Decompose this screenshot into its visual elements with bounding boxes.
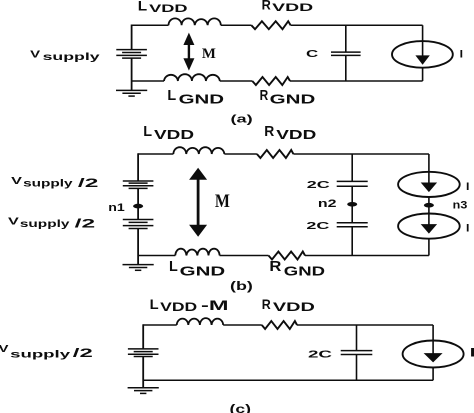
capacitor 2C lower (b)	[337, 222, 368, 224]
inductor L_VDD (a)	[169, 18, 221, 25]
svg-text:R: R	[269, 258, 281, 275]
capacitor 2C upper (b)	[351, 154, 353, 181]
svg-text:n1: n1	[108, 202, 125, 214]
svg-text:GND: GND	[284, 265, 325, 279]
resistor R_VDD (c)	[262, 321, 297, 329]
node: figure (c) bottom rail	[143, 379, 433, 381]
svg-text:(a): (a)	[231, 113, 254, 125]
svg-text:VDD: VDD	[149, 3, 187, 15]
node: figure (b) bottom rail	[138, 255, 175, 257]
svg-text:(b): (b)	[230, 281, 253, 293]
svg-text:VDD: VDD	[154, 127, 194, 142]
node n1 dot	[133, 204, 143, 209]
node: figure (a) top rail	[132, 24, 169, 26]
node n3 dot	[424, 203, 434, 208]
svg-text:V: V	[8, 216, 19, 227]
svg-text:supply: supply	[10, 350, 70, 361]
resistor R_VDD (a)	[251, 21, 290, 29]
svg-text:R: R	[264, 123, 274, 140]
capacitor 2C (c)	[356, 325, 358, 351]
inductor L_GND (b)	[175, 249, 219, 256]
node: figure (b) top rail	[138, 153, 173, 155]
svg-text:2C: 2C	[307, 180, 330, 191]
wire top rail to battery 1 (b)	[137, 153, 139, 181]
svg-text:/2: /2	[75, 217, 96, 231]
svg-text:V: V	[30, 49, 40, 60]
svg-text:/2: /2	[73, 346, 94, 360]
svg-text:V: V	[0, 343, 9, 355]
svg-text:VDD: VDD	[160, 300, 198, 314]
svg-text:/2: /2	[78, 176, 99, 190]
svg-text:M: M	[215, 191, 230, 212]
battery V_supply/2 (c)	[128, 348, 159, 350]
resistor R_VDD (b)	[257, 150, 294, 158]
svg-text:supply: supply	[20, 219, 70, 230]
svg-text:I: I	[460, 49, 463, 61]
svg-text:-M: -M	[201, 298, 229, 313]
svg-text:L: L	[138, 0, 148, 13]
svg-text:L: L	[143, 123, 152, 140]
current source I lower (b)	[398, 214, 460, 239]
mutual inductance arrow M (b)	[197, 176, 200, 228]
current source I upper (b)	[428, 154, 430, 173]
node: figure (c) top rail	[143, 324, 177, 326]
svg-text:2C: 2C	[306, 221, 329, 232]
svg-text:I: I	[466, 222, 469, 234]
inductor L_VDD-M (c)	[177, 318, 224, 325]
wire battery bottom to ground (a)	[131, 58, 133, 90]
current source I (a)	[422, 25, 424, 41]
svg-text:L: L	[150, 296, 159, 312]
wire battery to ground (c)	[142, 357, 144, 388]
svg-text:R: R	[262, 0, 271, 12]
svg-text:n3: n3	[453, 200, 468, 212]
svg-text:GND: GND	[270, 93, 316, 107]
node n2 dot	[347, 202, 357, 207]
mutual inductance arrow M (a)	[188, 40, 190, 63]
svg-text:VDD: VDD	[272, 2, 313, 14]
ground (b)	[123, 264, 154, 266]
svg-text:GND: GND	[180, 265, 226, 279]
ground (a)	[116, 89, 147, 91]
svg-text:R: R	[260, 87, 269, 104]
svg-text:L: L	[169, 258, 178, 275]
current source II (c)	[432, 325, 434, 341]
resistor R_GND (a)	[252, 77, 290, 85]
wire top rail to battery (c)	[142, 324, 144, 349]
wire between current sources (b)	[428, 197, 430, 214]
wire battery top (a)	[131, 25, 133, 50]
svg-text:VDD: VDD	[273, 300, 316, 314]
svg-text:II: II	[470, 347, 474, 359]
svg-text:supply: supply	[43, 52, 100, 63]
wire lower ellipse to bottom rail (b)	[428, 239, 430, 256]
svg-text:n2: n2	[318, 198, 337, 210]
battery V_supply/2 upper (b)	[123, 180, 154, 182]
svg-text:L: L	[167, 87, 176, 104]
battery V_supply (a)	[116, 49, 147, 51]
ground (c)	[128, 387, 159, 389]
svg-text:supply: supply	[23, 179, 73, 190]
inductor L_VDD (b)	[173, 147, 224, 154]
svg-text:VDD: VDD	[276, 127, 316, 142]
svg-text:I: I	[466, 181, 469, 193]
svg-text:2C: 2C	[308, 350, 333, 361]
inductor L_GND (a)	[164, 74, 220, 81]
svg-text:C: C	[306, 49, 319, 60]
svg-text:M: M	[202, 46, 216, 62]
node: figure (a) bottom rail	[132, 80, 164, 82]
wire battery2 to ground (b)	[137, 229, 139, 265]
battery V_supply/2 lower (b)	[123, 219, 154, 221]
resistor R_GND (b)	[269, 252, 306, 260]
svg-text:R: R	[262, 296, 271, 312]
svg-text:GND: GND	[179, 93, 225, 107]
svg-text:(c): (c)	[230, 402, 252, 413]
svg-text:V: V	[11, 176, 22, 187]
capacitor C (a)	[345, 25, 347, 52]
wire battery1 to battery2 (b)	[137, 188, 139, 219]
